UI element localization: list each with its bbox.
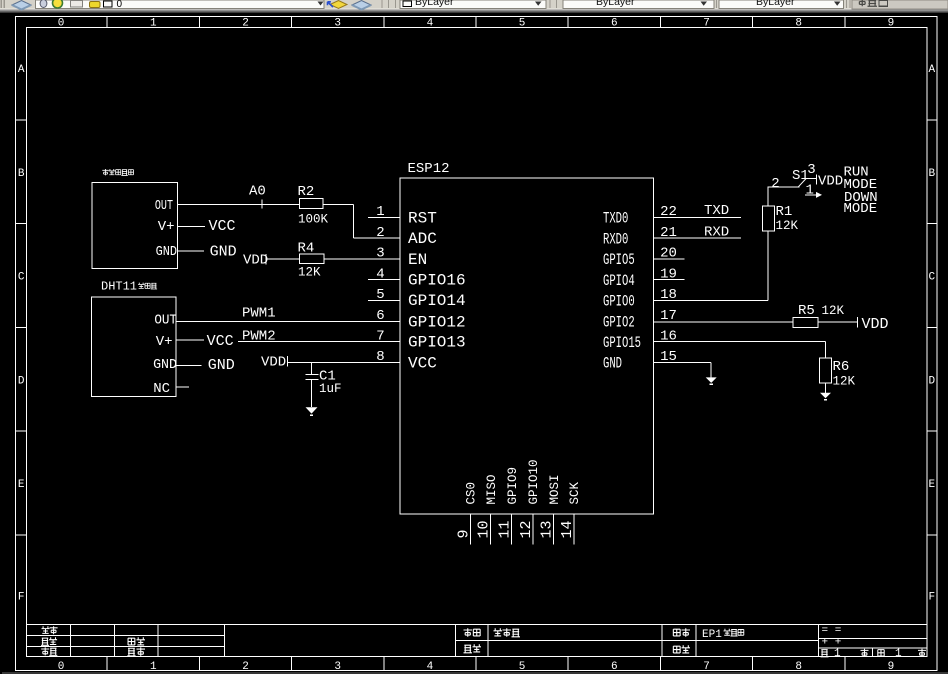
value 12K (R5) (822, 304, 845, 318)
svg-text:7: 7 (376, 328, 384, 344)
svg-text:C: C (928, 272, 935, 284)
pin name RXD0 (603, 232, 628, 250)
wire R4 to pin3 EN (324, 258, 400, 260)
svg-text:1: 1 (895, 648, 902, 660)
svg-text:5: 5 (376, 287, 384, 303)
bottom pin name MOSI (548, 474, 562, 504)
pin number 15 (660, 349, 677, 365)
pin name VCC (408, 354, 437, 372)
svg-text:+ +: + + (822, 637, 842, 649)
capacitor C1 (306, 362, 319, 407)
svg-text:R2: R2 (298, 184, 315, 200)
svg-text:VDD: VDD (862, 316, 889, 333)
svg-text:D: D (928, 375, 935, 387)
svg-text:GND: GND (210, 244, 237, 261)
net VCC (209, 218, 236, 235)
pin V+ (heart sensor) (158, 219, 175, 235)
svg-text:GPIO0: GPIO0 (603, 294, 635, 312)
svg-text:12K: 12K (833, 374, 856, 388)
svg-text:0: 0 (58, 661, 65, 673)
pin name GPIO15 (603, 335, 641, 353)
svg-text:CS0: CS0 (465, 482, 479, 505)
svg-text:14: 14 (559, 520, 576, 538)
svg-text:PWM1: PWM1 (242, 306, 276, 322)
svg-text:R1: R1 (776, 204, 793, 220)
value 12K (298, 266, 321, 280)
svg-text:E: E (928, 479, 935, 491)
svg-text:1: 1 (376, 204, 384, 220)
svg-text:GND: GND (208, 357, 235, 374)
pin number 7 (376, 328, 384, 344)
svg-text:S1: S1 (792, 168, 809, 184)
svg-text:6: 6 (611, 18, 618, 30)
resistor R1 (763, 204, 793, 231)
net VDD at pin8 (261, 355, 287, 371)
pin number 20 (660, 246, 677, 262)
svg-text:VDD: VDD (261, 355, 286, 371)
svg-text:3: 3 (334, 661, 341, 673)
svg-text:9: 9 (888, 661, 895, 673)
svg-text:VCC: VCC (209, 218, 236, 235)
svg-text:GPIO5: GPIO5 (603, 252, 635, 270)
pin 5 stub (368, 299, 400, 301)
pin number 16 (660, 328, 677, 344)
wire pin21 RXD (654, 237, 741, 239)
ground at pin15 (706, 377, 717, 384)
note DOWN MODE (844, 190, 878, 217)
svg-text:GPIO13: GPIO13 (408, 334, 466, 352)
wire pin18 to R1 (654, 231, 769, 300)
pin OUT (DHT11) (154, 312, 177, 328)
net VDD (switch) (818, 173, 843, 189)
svg-text:4: 4 (376, 266, 384, 282)
svg-text:2: 2 (376, 225, 384, 241)
svg-text:RXD0: RXD0 (603, 232, 628, 250)
wire GND (heart sensor) (178, 250, 204, 252)
toolbar (0, 0, 948, 13)
svg-text:B: B (18, 168, 25, 180)
svg-text:GPIO14: GPIO14 (408, 292, 466, 310)
svg-text:GPIO2: GPIO2 (603, 315, 635, 333)
svg-text:GPIO16: GPIO16 (408, 272, 466, 290)
svg-text:E: E (18, 479, 25, 491)
svg-text:PWM2: PWM2 (242, 329, 276, 345)
svg-text:1: 1 (805, 183, 813, 199)
wire VDD to R4 (266, 258, 300, 260)
svg-text:A: A (928, 64, 935, 76)
value 12K (R6) (833, 374, 856, 388)
svg-text:8: 8 (795, 661, 802, 673)
ground under R6 (820, 393, 831, 400)
label 2 (switch) (771, 176, 779, 192)
svg-text:8: 8 (795, 18, 802, 30)
svg-text:TXD: TXD (704, 203, 729, 219)
svg-text:1uF: 1uF (319, 382, 342, 396)
sensor U? heart-rate box label (102, 169, 133, 175)
wire GND (DHT11) (176, 364, 201, 366)
svg-text:7: 7 (703, 18, 710, 30)
svg-text:10: 10 (476, 520, 493, 538)
svg-text:100K: 100K (298, 213, 329, 227)
label S1 (792, 168, 809, 184)
svg-text:MOSI: MOSI (548, 474, 562, 504)
bottom pin name GPIO10 (527, 459, 541, 504)
op-chip ESP12 label (408, 161, 450, 177)
pin number 6 (376, 308, 384, 324)
wire pin15 GND to ground (654, 362, 712, 377)
svg-text:C: C (18, 272, 25, 284)
svg-text:= =: = = (822, 625, 842, 637)
pin name EN (408, 251, 427, 269)
wire PWM2 to pin7 (238, 341, 400, 343)
svg-text:VDD: VDD (243, 253, 268, 269)
resistor R2 (298, 184, 324, 208)
switch pin 3 wire + VDD tick (806, 175, 817, 185)
pin GND (heart sensor) (156, 243, 178, 259)
bottom pin number 14 (559, 520, 576, 538)
svg-text:ByLayer: ByLayer (756, 0, 795, 8)
svg-text:EP1: EP1 (702, 629, 722, 641)
net VCC (DHT11) (207, 333, 234, 350)
pin 8 stub (368, 361, 400, 363)
pin number 17 (660, 308, 677, 324)
bottom pin name MISO (485, 474, 499, 504)
svg-text:GPIO10: GPIO10 (527, 459, 541, 504)
value 100K (298, 213, 329, 227)
resistor R4 (298, 241, 324, 264)
svg-text:GPIO4: GPIO4 (603, 273, 635, 291)
bottom pin name GPIO9 (506, 467, 520, 505)
svg-text:ByLayer: ByLayer (415, 0, 454, 8)
net PWM2 (242, 329, 276, 345)
net RXD (704, 224, 729, 240)
pin V+ (DHT11) (156, 334, 173, 350)
svg-text:4: 4 (427, 18, 434, 30)
note RUN MODE (844, 165, 878, 194)
svg-text:VCC: VCC (207, 333, 234, 350)
svg-text:B: B (928, 168, 935, 180)
bottom pin 13 stub (553, 514, 555, 544)
svg-text:5: 5 (519, 18, 526, 30)
pin name RST (408, 209, 437, 227)
svg-text:R6: R6 (833, 359, 850, 375)
pin name GPIO16 (408, 272, 466, 290)
pin 7 stub (368, 341, 400, 343)
wire OUT to R2 (178, 204, 300, 206)
wire pin16 to R6 (654, 342, 826, 358)
label 1 (switch) (805, 183, 813, 199)
svg-text:11: 11 (497, 520, 514, 538)
pin number 19 (660, 266, 677, 282)
pin name GPIO0 (603, 294, 635, 312)
bottom pin name SCK (568, 481, 582, 504)
bottom pin number 11 (497, 520, 514, 538)
svg-text:12K: 12K (776, 219, 799, 233)
svg-text:V+: V+ (156, 334, 173, 350)
svg-text:ESP12: ESP12 (408, 161, 450, 177)
svg-text:A0: A0 (249, 183, 266, 199)
value 12K (R1) (776, 219, 799, 233)
DHT11 sensor box (91, 297, 176, 397)
svg-text:F: F (928, 592, 935, 604)
svg-text:F: F (18, 592, 25, 604)
svg-text:VCC: VCC (408, 354, 437, 372)
bottom pin number 10 (476, 520, 493, 538)
svg-text:13: 13 (539, 520, 556, 538)
wire R6 to ground (825, 383, 827, 393)
pin NC (DHT11) (153, 381, 170, 397)
pin GND (DHT11) (153, 358, 177, 373)
svg-text:2: 2 (771, 176, 779, 192)
bottom pin 12 stub (532, 514, 534, 544)
IC ESP12 body (400, 178, 654, 514)
pin 6 stub (368, 320, 400, 322)
svg-text:3: 3 (334, 18, 341, 30)
pin number 4 (376, 266, 384, 282)
svg-text:1: 1 (150, 18, 157, 30)
svg-text:EN: EN (408, 251, 427, 269)
pin name GPIO13 (408, 334, 466, 352)
svg-text:9: 9 (888, 18, 895, 30)
svg-text:VDD: VDD (818, 173, 843, 189)
net VDD at R4 (243, 253, 268, 269)
svg-text:RXD: RXD (704, 224, 729, 240)
label C1 (319, 369, 336, 385)
pin name ADC (408, 230, 437, 248)
pin number 5 (376, 287, 384, 303)
resistor R5 (793, 303, 818, 328)
wire V+ to VCC (178, 225, 205, 227)
wire pin17 to R5 (654, 321, 794, 323)
pin 4 stub (368, 279, 400, 281)
net GND (DHT11) (208, 357, 235, 374)
svg-text:R5: R5 (798, 303, 815, 319)
svg-text:9: 9 (455, 529, 472, 538)
bottom pin 11 stub (511, 514, 513, 544)
svg-text:GND: GND (603, 356, 622, 374)
resistor R6 (820, 358, 850, 383)
pin 2 stub (368, 237, 400, 239)
svg-text:D: D (18, 375, 25, 387)
svg-text:12: 12 (518, 520, 535, 538)
pin name GND (603, 356, 622, 374)
svg-text:ByLayer: ByLayer (596, 0, 635, 8)
net PWM1 (242, 306, 276, 322)
bottom pin 10 stub (490, 514, 492, 544)
bottom pin number 13 (539, 520, 556, 538)
pin 20 stub (654, 258, 685, 260)
pin name GPIO12 (408, 313, 466, 331)
bottom pin number 9 (455, 529, 472, 538)
svg-text:6: 6 (611, 661, 618, 673)
pin OUT (heart sensor) (155, 198, 173, 214)
switch S1 actuator (798, 179, 806, 188)
heart-rate sensor box (92, 183, 177, 269)
value 1uF (319, 382, 342, 396)
svg-text:0: 0 (58, 18, 65, 30)
svg-text:MODE: MODE (844, 201, 878, 217)
svg-text:GPIO9: GPIO9 (506, 467, 520, 505)
pin 3 stub (368, 258, 400, 260)
net VDD (R5) (862, 316, 889, 333)
net GND (210, 244, 237, 261)
svg-text:R4: R4 (298, 241, 315, 257)
svg-text:MISO: MISO (485, 474, 499, 504)
pin name GPIO2 (603, 315, 635, 333)
stub NC (176, 386, 189, 388)
wire VDD to pin8 VCC (287, 361, 400, 363)
pin number 3 (376, 246, 384, 262)
pin number 21 (660, 225, 677, 241)
switch pin 1 arrow (805, 192, 822, 198)
svg-text:2: 2 (242, 661, 249, 673)
svg-text:7: 7 (703, 661, 710, 673)
svg-text:5: 5 (519, 661, 526, 673)
svg-text:4: 4 (427, 661, 434, 673)
pin number 8 (376, 349, 384, 365)
svg-text:TXD0: TXD0 (603, 211, 628, 229)
pin number 18 (660, 287, 677, 303)
wire V+ to VCC (DHT11) (176, 339, 204, 341)
svg-text:6: 6 (376, 308, 384, 324)
svg-text:0: 0 (117, 0, 123, 10)
pin number 2 (376, 225, 384, 241)
svg-text:GND: GND (153, 358, 177, 373)
pin 19 stub (654, 279, 685, 281)
pin number 1 (376, 204, 384, 220)
wire pin22 TXD (654, 217, 741, 219)
svg-text:OUT: OUT (154, 312, 177, 328)
svg-text:GPIO15: GPIO15 (603, 335, 641, 353)
bottom pin name CS0 (465, 482, 479, 505)
ground under C1 (306, 407, 318, 415)
svg-text:GND: GND (156, 243, 178, 259)
svg-text:12K: 12K (822, 304, 845, 318)
svg-text:DHT11: DHT11 (101, 280, 137, 294)
pin name GPIO14 (408, 292, 466, 310)
bottom pin number 12 (518, 520, 535, 538)
svg-text:8: 8 (376, 349, 384, 365)
svg-text:OUT: OUT (155, 198, 173, 214)
svg-text:V+: V+ (158, 219, 175, 235)
svg-text:3: 3 (376, 246, 384, 262)
svg-text:ADC: ADC (408, 230, 437, 248)
svg-text:RST: RST (408, 209, 437, 227)
wire R1 to switch (768, 187, 800, 206)
svg-text:A: A (18, 64, 25, 76)
svg-text:NC: NC (153, 381, 170, 397)
svg-text:12K: 12K (298, 266, 321, 280)
node A0 (249, 183, 266, 208)
wire PWM1 to pin6 (176, 320, 400, 322)
svg-text:SCK: SCK (568, 481, 582, 504)
bottom pin 9 stub (469, 514, 471, 544)
label 3 (switch) (807, 162, 815, 178)
pin name GPIO5 (603, 252, 635, 270)
wire R5 to VDD (818, 317, 857, 328)
svg-text:1: 1 (150, 661, 157, 673)
net TXD (704, 203, 729, 219)
pin 1 stub (368, 217, 400, 219)
svg-text:2: 2 (242, 18, 249, 30)
DHT11 sensor label (101, 280, 157, 294)
title block (27, 625, 927, 657)
svg-text:3: 3 (807, 162, 815, 178)
svg-text:GPIO12: GPIO12 (408, 313, 466, 331)
pin name TXD0 (603, 211, 628, 229)
pin name GPIO4 (603, 273, 635, 291)
pin number 22 (660, 204, 677, 220)
svg-text:1: 1 (834, 648, 841, 660)
wire R2 to pin2 ADC (323, 205, 400, 239)
bottom pin 14 stub (573, 514, 575, 544)
